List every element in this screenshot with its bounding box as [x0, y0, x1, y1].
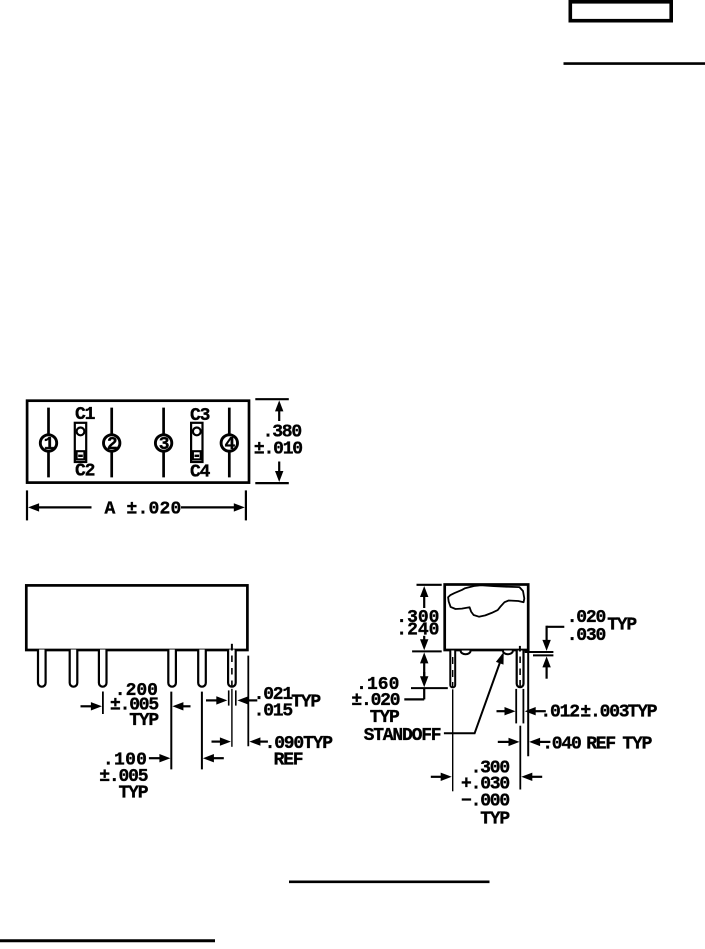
top view: pin 4 circle with number	[221, 435, 237, 451]
dimension .160 stem below	[423, 689, 425, 699]
extension line right pin right edge	[522, 689, 524, 724]
svg-text:±.010: ±.010	[254, 440, 302, 460]
svg-text:.015: .015	[254, 701, 293, 721]
capacitor C1/C2 body (left)	[75, 423, 86, 462]
dimension .100 arrow left	[149, 757, 161, 759]
figure title rule	[289, 880, 490, 883]
dimension .380 arrow up	[278, 410, 280, 422]
svg-text:1: 1	[44, 435, 55, 455]
top view: pin 2 lead line	[110, 408, 113, 478]
header rule	[564, 62, 705, 65]
dimension .160 leader to text	[404, 698, 424, 700]
dimension .090 arrow left	[212, 740, 223, 742]
dimension .020/.030 leader elbow	[547, 626, 565, 628]
extension line below pin 3 center	[102, 692, 104, 715]
dimension .200 arrow left	[81, 705, 93, 707]
svg-text:C3: C3	[190, 406, 210, 426]
side view: left pin centerline dashes	[452, 657, 454, 664]
extension line body bottom (right side)	[525, 651, 554, 653]
top view: pin 3 lead line	[162, 408, 165, 478]
svg-text:TYP: TYP	[480, 810, 510, 830]
dimension .040 arrow right	[539, 741, 551, 743]
dimension .020/.030 arrow down	[542, 640, 550, 651]
svg-text:3: 3	[159, 435, 169, 455]
side view: right pin lead	[517, 651, 524, 688]
svg-text:TYP: TYP	[607, 616, 637, 636]
svg-text:TYP: TYP	[291, 692, 321, 712]
svg-text:TYP: TYP	[129, 711, 159, 731]
extension line right pin centerline	[519, 726, 521, 790]
extension tick pin 6 right edge	[235, 690, 237, 705]
side view: left standoff bump	[461, 651, 471, 655]
svg-text:.012: .012	[540, 703, 579, 723]
dimension .300 row spacing arrow right	[531, 776, 543, 778]
extension line standoff bottom (right side)	[533, 654, 553, 656]
extension line below pin 5 center	[201, 692, 203, 770]
side view: glob-top outline (hand-drawn blob)	[448, 585, 524, 617]
dimension .100 arrow right	[213, 757, 224, 759]
svg-text:TYP: TYP	[118, 784, 148, 804]
side view: package body outline	[445, 585, 529, 651]
top view: pin 2 circle with number	[104, 435, 120, 451]
extension line right pin left edge	[515, 689, 517, 724]
front view: pin 6 centerline	[231, 644, 233, 651]
dimension A extension line left	[26, 490, 28, 520]
front view: pin 6 lead	[228, 650, 236, 687]
front view: pin 2 lead	[70, 650, 78, 687]
footer rule	[0, 939, 215, 942]
top view: pin 4 lead line	[228, 408, 231, 478]
svg-text:A ±.020: A ±.020	[105, 500, 182, 520]
top view: pin 3 circle with number	[155, 435, 171, 451]
dimension .380 extension line bottom	[255, 482, 288, 484]
svg-text:.030: .030	[567, 626, 606, 646]
side view: left pin centerline extension	[452, 689, 454, 791]
dimension A arrow left	[38, 506, 92, 508]
svg-text:REF: REF	[274, 750, 303, 770]
title block box (empty, clipped at page top)	[570, 2, 671, 21]
dimension .200 arrow right	[182, 705, 191, 707]
svg-text:2: 2	[107, 435, 117, 455]
dimension .021/.015 arrow left	[206, 699, 218, 701]
leader line from STANDOFF to bump	[444, 655, 503, 734]
capacitor C3/C4 body (right)	[191, 423, 202, 462]
extension line body bottom (left side)	[412, 650, 442, 652]
front view: package body outline	[26, 585, 247, 650]
side view: body right edge extension	[527, 651, 529, 756]
svg-text:REF: REF	[586, 735, 615, 755]
dimension .160 arrow down	[423, 672, 425, 678]
front view: pin 4 lead	[168, 650, 176, 687]
svg-text:.040: .040	[542, 735, 581, 755]
dimension .300 row spacing arrow left	[431, 776, 442, 778]
dimension A arrow right	[181, 506, 236, 508]
front view: pin 5 lead	[198, 650, 206, 687]
extension line below pin 4 center	[170, 692, 172, 770]
side view: right pin centerline dashes	[519, 657, 521, 664]
dimension .300/.240 arrow down	[423, 636, 425, 641]
top view: package body outline	[27, 401, 249, 483]
svg-text:±.003: ±.003	[580, 703, 628, 723]
dimension .090 arrow right	[259, 740, 268, 742]
extension tick pin 6 left edge	[228, 690, 230, 705]
front view: pin 1 lead	[38, 650, 46, 687]
svg-text:C2: C2	[75, 462, 95, 482]
svg-text:STANDOFF: STANDOFF	[364, 726, 441, 746]
side view: right standoff bump	[503, 651, 513, 655]
dimension A extension line right	[245, 490, 247, 520]
side view: right pin centerline stub	[519, 646, 521, 652]
extension line body right edge (front view)	[247, 656, 249, 747]
svg-text:TYP: TYP	[628, 703, 658, 723]
dimension .021/.015 arrow right	[247, 699, 258, 701]
dimension .300/.240 arrow up	[420, 586, 428, 597]
top view: pin 1 circle with number	[40, 435, 56, 451]
side view: left pin lead	[450, 651, 455, 688]
svg-text:4: 4	[224, 435, 235, 455]
dimension .012 arrow left	[497, 710, 508, 712]
dimension .300/.240 extension line top	[417, 584, 442, 586]
front view: pin 3 lead	[99, 650, 107, 687]
dimension .380 extension line top	[255, 398, 288, 400]
dimension .380 arrow down	[278, 462, 280, 473]
dimension .012 arrow right	[534, 710, 546, 712]
extension line pin bottom (left side)	[411, 687, 448, 689]
svg-text:C1: C1	[75, 405, 96, 425]
svg-text:.240: .240	[396, 620, 439, 640]
dimension .020/.030 arrow up	[542, 656, 550, 667]
top view: pin 1 lead line	[47, 408, 50, 478]
svg-text:C4: C4	[190, 463, 211, 483]
dimension .160 arrow up	[420, 652, 428, 663]
dimension .040 arrow left	[498, 741, 510, 743]
svg-text:TYP: TYP	[622, 735, 652, 755]
